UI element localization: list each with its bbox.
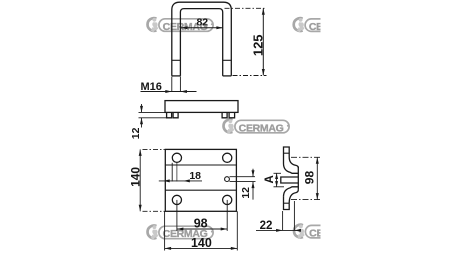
plate bend line lower [165, 189, 236, 191]
U-bolt right leg thread line [223, 59, 232, 61]
side profile top tab [284, 147, 290, 164]
hole bottom-left [172, 195, 181, 204]
spacer foot 2 [173, 112, 178, 117]
svg-text:18: 18 [189, 170, 201, 182]
dim 12 right leaders from small hole [230, 176, 256, 178]
dim 140 bottom line [165, 247, 238, 249]
side profile lower outer bend [289, 190, 298, 203]
arrow M16 left (points right at leg outer edge) [165, 90, 172, 93]
svg-text:125: 125 [251, 34, 266, 56]
arrow M16 right (points left at leg inner edge) [180, 90, 187, 93]
dim 140 left line [139, 149, 141, 211]
side profile upper inner bend [284, 164, 299, 174]
svg-text:A: A [264, 175, 276, 183]
dim 125 line [262, 8, 264, 75]
svg-text:140: 140 [129, 167, 143, 187]
dim 12 left arrow tails [141, 104, 143, 112]
U-bolt left leg bottom [172, 75, 181, 77]
arrow A down [275, 181, 278, 187]
dim 22 line [256, 229, 300, 231]
dim 125 ext bottom (dash-dot) [233, 75, 267, 77]
svg-text:22: 22 [260, 220, 273, 232]
arrow 22 right (points left) [294, 229, 301, 232]
dim M16 line [141, 91, 197, 93]
arrow 22 left (points right) [276, 229, 283, 232]
side profile top tab bend line [284, 152, 290, 154]
dim 18 line [159, 180, 202, 182]
dim 98 right line [316, 157, 318, 199]
arrow 98-bottom left [177, 228, 184, 231]
watermark top-right (clipped) [294, 18, 360, 33]
dim 18 ext lines [171, 163, 173, 182]
arrow 82 left [181, 26, 188, 29]
arrow A up [275, 173, 278, 179]
plate front view outline [165, 149, 236, 211]
arrow 140-left top [139, 149, 142, 156]
dim 98 bottom ext lines [176, 200, 178, 231]
arrow 18 at hole (left) [183, 179, 190, 182]
svg-text:98: 98 [194, 217, 208, 231]
dim 140 bottom ext lines [164, 211, 166, 250]
side profile bottom tab [284, 197, 290, 210]
spacer foot 3 [222, 112, 227, 117]
dim 98 right ext bottom [291, 199, 321, 201]
U-bolt inner outline [180, 9, 222, 76]
side profile lower inner bend [284, 187, 299, 197]
dim 98 right ext top [291, 156, 321, 158]
arrow 140-bottom left [165, 247, 172, 250]
dim 12 left ext lines [139, 111, 166, 113]
arrow 12-left lower (up) [140, 118, 143, 125]
dim 82 line [181, 27, 223, 29]
watermark middle-right [224, 119, 290, 134]
dim 22 ext lines [282, 211, 284, 231]
hole top-right [223, 153, 232, 162]
svg-text:140: 140 [191, 236, 212, 250]
watermark bottom-right (clipped) [294, 225, 360, 240]
dim 125 ext top (dash-dot) [225, 7, 267, 9]
svg-text:M16: M16 [141, 81, 162, 93]
side profile bottom tab bend line [284, 202, 290, 204]
dim M16 ext lines [171, 77, 173, 93]
arrow 140-bottom right [231, 247, 238, 250]
spacer plate body (side view) [165, 101, 238, 113]
small hole [225, 177, 230, 182]
side profile right edge [297, 167, 299, 190]
dim 140 left ext bottom [143, 210, 166, 212]
U-bolt left leg thread line [172, 59, 181, 61]
spacer foot 1 [167, 112, 172, 117]
arrow 125 bottom [262, 69, 265, 76]
watermark top-left [148, 18, 214, 33]
U-bolt U1 outer outline [172, 2, 232, 76]
U-bolt right leg bottom [223, 75, 232, 77]
dim A line [276, 173, 278, 187]
svg-text:82: 82 [196, 17, 208, 29]
watermark bottom-left [148, 225, 214, 240]
side profile tongue [281, 177, 299, 183]
side profile upper outer bend [289, 157, 298, 168]
arrow 18 at plate edge (left) [163, 179, 170, 182]
arrow 98-bottom right [221, 228, 228, 231]
arrow 98-right top [316, 157, 319, 164]
arrow 98-right bottom [316, 193, 319, 200]
svg-text:12: 12 [240, 187, 252, 199]
arrow 12-left upper (down) [140, 106, 143, 113]
arrow 82 right [216, 26, 223, 29]
svg-text:98: 98 [302, 171, 316, 185]
dim 12 right arrow tails [252, 169, 254, 177]
hole top-left [172, 153, 181, 162]
arrow 125 top [262, 8, 265, 15]
plate bend line upper [165, 164, 236, 166]
dim 140 left ext top (dash-dot) [143, 148, 165, 150]
dim A ext lines [274, 172, 282, 174]
svg-text:12: 12 [130, 127, 142, 139]
spacer foot 4 [229, 112, 235, 117]
arrow 12-right upper (down) [252, 170, 255, 177]
arrow 12-right lower (up) [252, 182, 255, 189]
hole bottom-right [223, 195, 232, 204]
dim 98 bottom line [177, 228, 227, 230]
white mask over right margin [321, 0, 450, 253]
arrow 140-left bottom [139, 205, 142, 212]
